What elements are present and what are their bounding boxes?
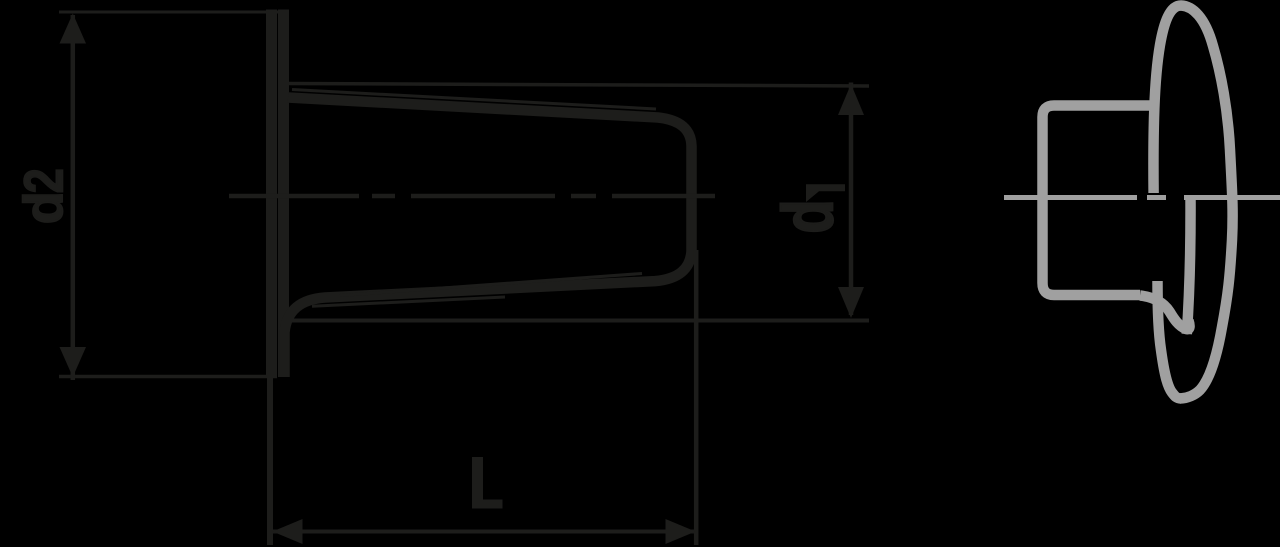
svg-text:2: 2 — [13, 168, 74, 193]
svg-text:d: d — [13, 191, 74, 224]
svg-text:d: d — [768, 199, 848, 233]
